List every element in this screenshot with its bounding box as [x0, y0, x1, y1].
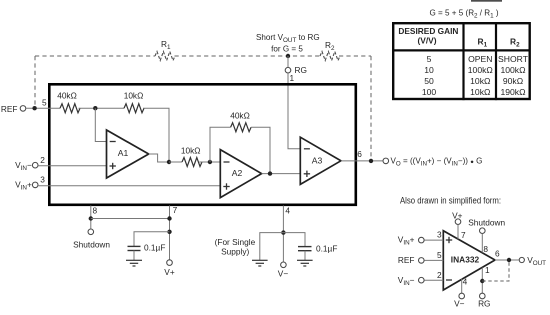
wire VIN+ to A2 non-inverting input: [38, 185, 220, 187]
wire A2 feedback loop: [210, 127, 231, 162]
gain table column separator 1: [462, 22, 464, 100]
svg-text:REF: REF: [398, 255, 415, 265]
svg-text:0.1µF: 0.1µF: [316, 244, 337, 254]
svg-text:4: 4: [285, 205, 290, 215]
wire 40k to 10k: [79, 107, 125, 109]
svg-text:2: 2: [437, 270, 442, 280]
svg-text:Shutdown: Shutdown: [73, 240, 110, 250]
svg-text:3: 3: [40, 174, 45, 184]
gain table column separator 2: [495, 22, 497, 100]
ground (single supply): [252, 260, 268, 266]
minus symbol (pin 2 input): [446, 279, 452, 281]
capacitor 0.1uF (V- bypass): [298, 246, 312, 248]
svg-text:INA332: INA332: [451, 255, 480, 265]
wire dashed RG to output: [482, 260, 509, 281]
op-amp A2: [220, 150, 261, 198]
wire dashed gain loop top horizontal: [35, 55, 155, 57]
svg-text:2: 2: [40, 155, 45, 165]
svg-text:10kΩ: 10kΩ: [124, 91, 144, 101]
svg-text:(V/V): (V/V): [417, 35, 436, 45]
svg-text:(For Single: (For Single: [215, 237, 256, 247]
terminal VO (open circle): [383, 158, 389, 164]
svg-text:100kΩ: 100kΩ: [500, 65, 526, 75]
svg-text:V−: V−: [454, 298, 465, 308]
node junction output / dashed loop: [369, 159, 373, 163]
resistor R2 (dashed): [320, 52, 340, 61]
svg-text:5: 5: [437, 250, 442, 260]
svg-text:40kΩ: 40kΩ: [230, 111, 250, 121]
ground (V+ bypass): [126, 260, 142, 266]
wire VIN- to A1 non-inverting input: [38, 165, 106, 167]
IC boundary box: [49, 84, 356, 205]
svg-text:5: 5: [427, 54, 432, 64]
wire pin4 to left ground: [260, 233, 284, 261]
svg-text:190kΩ: 190kΩ: [500, 87, 526, 97]
svg-text:6: 6: [495, 249, 500, 259]
wire 10k to A2 inverting node: [199, 161, 220, 163]
pin 7 wire (V+): [169, 206, 171, 260]
capacitor 0.1uF (V+ bypass): [128, 245, 141, 247]
terminal Shutdown: [88, 229, 94, 235]
wire A1 output: [149, 154, 169, 162]
resistor 40k (A2 feedback): [231, 123, 252, 132]
node junction pin 7 bypass: [167, 230, 171, 234]
svg-text:4: 4: [463, 276, 468, 286]
svg-text:8: 8: [92, 205, 97, 215]
cropped text artifact top right: [471, 0, 502, 2]
wire junction to RG terminal: [287, 56, 289, 67]
svg-text:100: 100: [422, 87, 437, 97]
svg-text:10: 10: [424, 65, 434, 75]
gain table header separator: [392, 49, 531, 51]
svg-text:REF: REF: [1, 104, 18, 114]
svg-text:7: 7: [461, 230, 466, 240]
node junction RG simplified: [480, 279, 484, 283]
node junction A2 inverting input: [208, 160, 212, 164]
gain table frame: [393, 23, 530, 99]
plus symbol (pin 3 input): [446, 239, 452, 241]
svg-text:SHORT: SHORT: [498, 54, 529, 64]
svg-text:10kΩ: 10kΩ: [181, 145, 201, 155]
terminal V-: [281, 262, 287, 268]
simplified amp INA332 triangle: [443, 231, 495, 290]
svg-text:1: 1: [290, 73, 295, 83]
svg-text:Also drawn in simplified form:: Also drawn in simplified form:: [400, 196, 501, 206]
svg-text:40kΩ: 40kΩ: [57, 91, 77, 101]
svg-text:10kΩ: 10kΩ: [470, 76, 491, 86]
wire capacitor to ground: [133, 251, 135, 261]
wire pin4 to right bypass capacitor: [283, 233, 305, 247]
node junction REF / dashed loop: [32, 106, 36, 110]
pin 4 wire (V-): [282, 206, 284, 262]
node junction on dashed line: [286, 54, 290, 58]
resistor 40k (input): [60, 104, 80, 113]
wire RG down to A3 inverting input: [288, 73, 300, 149]
node junction pin 8: [89, 216, 93, 220]
wire REF to box: [26, 107, 60, 109]
resistor R1 (dashed): [155, 52, 175, 61]
node junction pin 7 top: [167, 216, 171, 220]
wire dashed gain loop left vertical: [34, 56, 36, 106]
terminal VOUT: [519, 257, 524, 262]
svg-text:V−: V−: [278, 269, 289, 279]
node junction A1 output: [167, 160, 171, 164]
svg-text:Shutdown: Shutdown: [468, 218, 505, 228]
node junction pin 4: [281, 230, 285, 234]
svg-text:A2: A2: [232, 168, 243, 178]
wire A2 output to A3: [262, 173, 301, 175]
terminal RG simplified: [480, 293, 486, 299]
pin 4 V- wire simplified: [461, 279, 463, 294]
wire capacitor to ground: [304, 251, 306, 261]
svg-text:10kΩ: 10kΩ: [470, 87, 491, 97]
wire feedback to A2 output: [251, 127, 270, 173]
node junction A2 output / feedback: [268, 171, 272, 175]
svg-text:8: 8: [483, 244, 488, 254]
svg-text:A3: A3: [312, 155, 323, 165]
wire dashed gain loop right vertical: [370, 56, 372, 159]
svg-text:Supply): Supply): [221, 247, 249, 257]
resistor 10k (top): [124, 104, 144, 113]
svg-text:for G = 5: for G = 5: [271, 45, 303, 54]
wire junction to A1 inverting input: [95, 108, 106, 141]
pin 1 RG wire simplified: [481, 268, 483, 294]
wire pin8 to pin7: [91, 218, 170, 220]
node junction output simplified: [507, 258, 511, 262]
svg-text:5: 5: [42, 98, 47, 108]
wire A3 output to VO terminal: [341, 160, 383, 162]
node junction at A1 inverting branch: [93, 106, 97, 110]
svg-text:7: 7: [173, 205, 178, 215]
svg-text:100kΩ: 100kΩ: [468, 65, 494, 75]
wire 10k to A1 output node: [143, 108, 169, 162]
svg-text:RG: RG: [295, 65, 307, 75]
op-amp A3: [300, 137, 341, 184]
pin 8 wire (Shutdown): [90, 206, 92, 229]
terminal V- simplified: [459, 293, 465, 299]
svg-text:V+: V+: [164, 267, 175, 277]
svg-text:DESIRED GAIN: DESIRED GAIN: [398, 26, 458, 36]
svg-text:50: 50: [424, 76, 434, 86]
svg-text:3: 3: [437, 230, 442, 240]
svg-text:RG: RG: [478, 298, 490, 308]
wire to 10k (middle): [169, 161, 182, 163]
wire output simplified: [495, 259, 519, 261]
svg-text:90kΩ: 90kΩ: [503, 76, 524, 86]
terminal RG (open circle): [285, 67, 291, 73]
ground (V- bypass): [297, 260, 313, 266]
op-amp A1: [107, 130, 149, 178]
svg-text:A1: A1: [118, 148, 129, 158]
wire to bypass capacitor: [134, 232, 170, 247]
svg-text:0.1µF: 0.1µF: [144, 243, 165, 253]
svg-text:OPEN: OPEN: [468, 54, 492, 64]
svg-text:6: 6: [357, 149, 362, 159]
terminal V+: [167, 260, 173, 266]
svg-text:1: 1: [485, 265, 490, 275]
resistor 10k (middle): [182, 158, 202, 167]
